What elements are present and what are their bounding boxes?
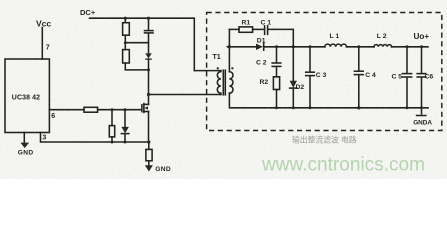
junction DC rail left [124, 17, 127, 20]
junction C6 top [420, 45, 423, 48]
diode D2 lead [292, 47, 294, 81]
diode D1 triangle [256, 44, 263, 50]
junction gate D [124, 108, 127, 111]
wire R2 to bottom rail [276, 90, 278, 108]
capacitor C4 lead [358, 47, 360, 71]
winding polarity dot secondary [231, 67, 233, 69]
wire resistor chain bottom [125, 63, 148, 70]
junction bottom R [111, 141, 114, 144]
wire main rail D1 to L1 [264, 46, 325, 48]
junction bottom D [124, 141, 127, 144]
wire main rail L1 to L2 [347, 46, 375, 48]
junction resistor tie [124, 41, 127, 44]
junction D2 top [292, 45, 295, 48]
diode gate lead down [124, 134, 126, 142]
transformer T1 core [222, 70, 224, 95]
resistor gate-source [109, 126, 114, 137]
wire pin3 to source junction [41, 133, 149, 143]
junction chain bottom [147, 68, 150, 71]
dashed box output section [207, 13, 442, 131]
junction main node [228, 45, 231, 48]
junction source sense [147, 140, 150, 143]
wire tie resistors to cap column [125, 42, 148, 44]
capacitor C5 plates [402, 73, 411, 75]
diode snubber triangle [145, 53, 152, 58]
resistor gate-source lead up [111, 110, 113, 126]
resistor gate-source lead down [111, 137, 113, 142]
transformer primary winding [217, 71, 221, 95]
diode D2 cathode bar [290, 87, 297, 89]
resistor startup R lower [123, 50, 130, 63]
wire C1 to drop [268, 29, 293, 46]
capacitor C1 plates [264, 26, 266, 34]
junction D2 bottom [292, 106, 295, 109]
wire C3 to bottom rail [309, 76, 311, 108]
resistor startup R upper [124, 18, 126, 23]
ground tick output [417, 115, 426, 117]
ground MOSFET triangle [145, 165, 153, 171]
diode D1 cathode bar [263, 43, 265, 50]
capacitor C4 plates [354, 70, 363, 72]
wire C2 to R2 [276, 67, 278, 77]
junction C3 top [309, 45, 312, 48]
transistor Q1 arrow [144, 106, 148, 109]
capacitor snubber C top lead [148, 18, 150, 30]
junction C3 bottom [309, 106, 312, 109]
inductor L2 [374, 45, 392, 47]
wire diode to drain node [148, 59, 150, 95]
ground chip triangle [20, 143, 29, 149]
capacitor C5 lead [406, 47, 408, 73]
wire C5 to bottom rail [406, 77, 408, 108]
resistor R2 [273, 77, 279, 90]
resistor gate R [84, 107, 98, 112]
junction C5 top [406, 45, 409, 48]
wire between startup resistors [124, 35, 126, 49]
node Vcc wire [41, 28, 43, 60]
junction gate R [111, 108, 114, 111]
wire gate line [98, 109, 142, 111]
wire secondary bottom rail [229, 93, 428, 108]
transformer secondary winding [229, 72, 233, 94]
capacitor C6 plates [417, 73, 426, 75]
wire pin6 to gate resistor [49, 109, 84, 111]
winding polarity dot primary [217, 67, 219, 69]
diode gate cathode bar [121, 133, 128, 135]
IC U1 UC3842 box [5, 59, 49, 133]
wire R1C1 row left [229, 28, 239, 30]
junction drain node [147, 93, 150, 96]
capacitor C3 lead [309, 47, 311, 72]
wire C4 to bottom rail [358, 75, 360, 108]
junction C5 bottom [406, 106, 409, 109]
capacitor C2 lead [276, 47, 278, 63]
resistor R1 [239, 27, 253, 32]
diode D2 triangle [290, 81, 297, 88]
junction C2 top [275, 45, 278, 48]
wire main secondary rail [229, 46, 256, 48]
diode gate lead up [124, 110, 126, 127]
scan noise overlay (decorative) [0, 0, 447, 179]
diode gate triangle [121, 127, 128, 133]
wire D2 to bottom rail [292, 88, 294, 108]
resistor sense lead [148, 142, 150, 149]
junction C4 bottom [357, 106, 360, 109]
node arrow at secondary top [226, 44, 230, 49]
wire chip gnd stub [23, 133, 25, 143]
junction C4 top [357, 45, 360, 48]
wire C6 to bottom rail and ground [421, 77, 423, 114]
wire main rail L2 to output [392, 46, 428, 48]
wire cap to diode [148, 33, 150, 53]
capacitor C2 plates [272, 62, 281, 64]
wire R1 to C1 [253, 28, 265, 30]
capacitor snubber plates [145, 30, 154, 32]
transistor Q1 body [144, 103, 149, 105]
transistor Q1 drain lead [148, 95, 150, 105]
junction C6 bottom [420, 106, 423, 109]
junction DC rail right [147, 17, 150, 20]
resistor sense [146, 149, 152, 160]
capacitor C3 plates [306, 71, 315, 73]
transistor Q1 source lead [148, 112, 150, 143]
wire drain node to primary bottom [149, 94, 221, 96]
wire DC+ rail to primary top [90, 18, 221, 70]
capacitor C6 lead [421, 47, 423, 73]
junction C2 bottom [275, 106, 278, 109]
wire secondary top column [228, 29, 230, 71]
wire sense to ground [148, 161, 150, 166]
inductor L1 [325, 44, 347, 47]
